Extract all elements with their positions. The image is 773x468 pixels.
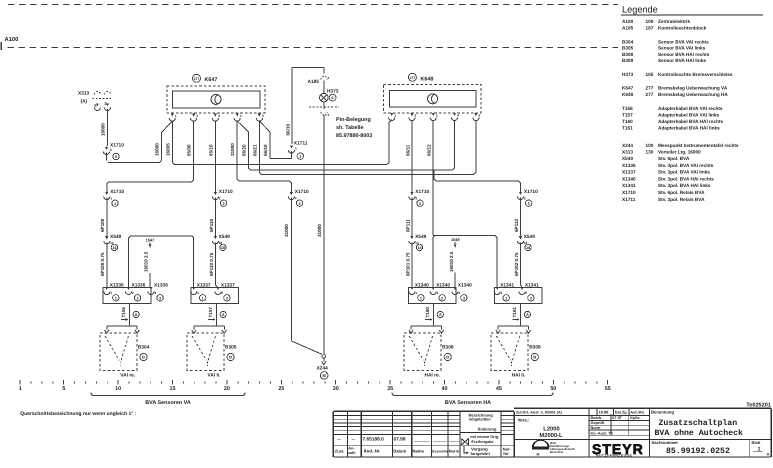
svg-text:3: 3	[218, 114, 220, 118]
svg-text:18: 18	[526, 246, 530, 250]
svg-text:Sensor BVA VAl rechts: Sensor BVA VAl rechts	[658, 39, 709, 44]
svg-text:66/10: 66/10	[263, 144, 268, 156]
svg-text:X1710: X1710	[524, 189, 538, 195]
svg-text:--: --	[338, 437, 342, 442]
svg-text:2: 2	[221, 291, 223, 295]
svg-text:5: 5	[479, 114, 481, 118]
svg-text:T160: T160	[425, 307, 430, 318]
svg-text:A185: A185	[308, 79, 320, 85]
svg-text:16010 2.5: 16010 2.5	[144, 251, 149, 272]
svg-text:5: 5	[524, 197, 526, 201]
svg-text:Stv. 3pol. BVA VAl links: Stv. 3pol. BVA VAl links	[658, 170, 710, 175]
svg-text:B305: B305	[225, 345, 237, 351]
svg-text:mitgeteilten: mitgeteilten	[469, 417, 491, 422]
svg-text:3: 3	[436, 114, 438, 118]
svg-text:1: 1	[394, 114, 396, 118]
svg-text:sh. Tabelle: sh. Tabelle	[336, 125, 363, 131]
svg-text:X313: X313	[78, 91, 90, 97]
svg-text:187: 187	[646, 25, 654, 30]
svg-text:277: 277	[646, 92, 654, 97]
svg-text:Auf./Ab.: Auf./Ab.	[630, 411, 645, 415]
svg-text:6P100 0.75: 6P100 0.75	[100, 252, 105, 276]
svg-text:K648: K648	[622, 92, 634, 97]
svg-text:1: 1	[114, 202, 116, 206]
svg-text:X549: X549	[219, 234, 231, 240]
svg-text:3: 3	[415, 197, 417, 201]
svg-text:5: 5	[62, 386, 65, 392]
svg-text:A: A	[767, 451, 770, 456]
svg-text:Stv. 6pol. BVA: Stv. 6pol. BVA	[658, 156, 690, 161]
svg-text:6P102 0.75: 6P102 0.75	[514, 252, 519, 276]
svg-text:K648: K648	[421, 77, 434, 83]
svg-text:BVA Sensoren VA: BVA Sensoren VA	[145, 400, 191, 406]
svg-text:7.65188.0: 7.65188.0	[363, 436, 385, 442]
svg-text:20: 20	[224, 386, 230, 392]
svg-text:16000: 16000	[101, 123, 106, 136]
svg-text:VAl li.: VAl li.	[208, 373, 221, 379]
svg-text:X1710: X1710	[110, 143, 124, 149]
svg-text:Te025201: Te025201	[746, 403, 771, 409]
svg-text:L2000: L2000	[543, 426, 559, 433]
svg-text:Verteiler Ltg. 16000: Verteiler Ltg. 16000	[658, 150, 701, 155]
svg-text:2: 2	[226, 296, 228, 300]
svg-text:Ko.-Ausl. TK: Ko.-Ausl. TK	[591, 431, 614, 435]
svg-text:X1336: X1336	[154, 283, 168, 289]
svg-text:T157: T157	[622, 113, 633, 118]
svg-text:277: 277	[410, 76, 416, 80]
svg-text:07.98: 07.98	[394, 436, 406, 442]
svg-text:Norm: Norm	[449, 449, 460, 454]
svg-text:mit neuem Orig.: mit neuem Orig.	[470, 435, 499, 439]
svg-text:2: 2	[223, 202, 225, 206]
svg-text:A100: A100	[5, 36, 19, 43]
svg-text:T160: T160	[622, 119, 633, 124]
svg-text:1: 1	[420, 296, 422, 300]
svg-text:X1710: X1710	[415, 189, 429, 195]
svg-text:31000: 31000	[230, 143, 235, 156]
svg-text:1: 1	[110, 291, 112, 295]
svg-text:Gezeichn: Gezeichn	[432, 450, 448, 454]
svg-text:35: 35	[387, 386, 393, 392]
svg-text:A: A	[135, 312, 138, 317]
svg-text:B: B	[229, 355, 232, 360]
svg-text:K647: K647	[622, 86, 634, 91]
svg-text:19.98: 19.98	[599, 410, 610, 415]
svg-text:3: 3	[463, 296, 465, 300]
svg-text:40: 40	[442, 386, 448, 392]
svg-text:55: 55	[605, 386, 611, 392]
svg-text:100: 100	[646, 19, 654, 24]
svg-text:277: 277	[194, 77, 200, 81]
svg-text:für: für	[503, 451, 509, 456]
svg-text:Bearb.: Bearb.	[591, 416, 603, 420]
svg-text:M: M	[537, 452, 540, 456]
svg-text:16010 2.5: 16010 2.5	[449, 251, 454, 272]
svg-text:6P110: 6P110	[209, 219, 214, 232]
svg-text:X244: X244	[622, 143, 633, 148]
svg-text:65/10: 65/10	[208, 144, 213, 156]
svg-text:T156: T156	[121, 307, 126, 318]
svg-text:Dat.Zg.: Dat.Zg.	[615, 411, 628, 415]
svg-text:277: 277	[646, 86, 654, 91]
svg-text:M2000-L: M2000-L	[539, 432, 563, 439]
svg-text:1: 1	[110, 197, 112, 201]
svg-text:Vers.:: Vers.:	[518, 418, 530, 423]
svg-text:VAl re.: VAl re.	[120, 373, 135, 379]
svg-text:18: 18	[221, 246, 225, 250]
svg-text:3: 3	[154, 291, 156, 295]
svg-text:B309: B309	[529, 345, 541, 351]
svg-text:2: 2	[196, 114, 198, 118]
svg-text:X1710: X1710	[295, 189, 309, 195]
svg-text:1: 1	[295, 147, 297, 151]
svg-text:6P101 0.75: 6P101 0.75	[405, 252, 410, 276]
svg-text:Norm: Norm	[591, 426, 602, 430]
svg-text:1: 1	[197, 291, 199, 295]
svg-text:BVA Sensoren HA: BVA Sensoren HA	[445, 400, 491, 406]
svg-text:5: 5	[262, 114, 264, 118]
svg-text:1: 1	[299, 155, 301, 159]
svg-text:25: 25	[278, 386, 284, 392]
svg-text:85.97890-8003: 85.97890-8003	[336, 133, 372, 139]
svg-text:A: A	[526, 312, 529, 317]
svg-text:Erstfreigabe: Erstfreigabe	[471, 440, 493, 444]
svg-text:X549: X549	[622, 156, 633, 161]
svg-text:Querschnittsbezeichnung nur we: Querschnittsbezeichnung nur wenn ungleic…	[20, 411, 136, 417]
svg-text:Änderung: Änderung	[478, 426, 497, 431]
svg-text:X1711: X1711	[622, 197, 636, 202]
svg-text:BVA ohne Autocheck: BVA ohne Autocheck	[655, 429, 744, 438]
svg-text:A: A	[439, 312, 442, 317]
svg-text:Blatt: Blatt	[752, 440, 762, 445]
svg-text:(A): (A)	[81, 99, 88, 105]
svg-text:2: 2	[136, 296, 138, 300]
svg-text:B304: B304	[622, 39, 634, 44]
svg-text:3: 3	[458, 291, 460, 295]
svg-text:Änd.-Nr.: Änd.-Nr.	[364, 449, 381, 454]
svg-text:Kontrolleuchte Bremsverschleis: Kontrolleuchte Bremsverschleiss	[658, 72, 733, 77]
svg-text:B309: B309	[622, 58, 634, 63]
svg-text:2: 2	[437, 291, 439, 295]
svg-text:HAl re.: HAl re.	[425, 373, 440, 379]
svg-text:10: 10	[115, 386, 121, 392]
svg-text:B308: B308	[622, 52, 634, 57]
svg-text:31000: 31000	[317, 224, 322, 237]
svg-text:2: 2	[530, 296, 532, 300]
svg-text:3: 3	[419, 202, 421, 206]
svg-text:B308: B308	[442, 345, 454, 351]
svg-text:Werk Graz: Werk Graz	[550, 450, 564, 454]
svg-text:H373: H373	[622, 72, 634, 77]
svg-text:B: B	[533, 355, 536, 360]
svg-text:6P111: 6P111	[405, 219, 410, 232]
svg-text:Sachnummer: Sachnummer	[652, 440, 679, 445]
svg-text:Stv. 3pol. BVA HAl rechts: Stv. 3pol. BVA HAl rechts	[658, 176, 714, 181]
svg-text:Zul.Grt.-Ausf. n. K9001 (A): Zul.Grt.-Ausf. n. K9001 (A)	[516, 411, 563, 415]
svg-text:16005: 16005	[165, 143, 170, 156]
svg-text:An-: An-	[348, 446, 355, 450]
svg-text:1: 1	[501, 291, 503, 295]
svg-text:T161: T161	[622, 126, 633, 131]
svg-text:1: 1	[19, 386, 22, 392]
svg-text:Kplle.: Kplle.	[630, 416, 640, 420]
svg-text:45: 45	[496, 386, 502, 392]
svg-text:Bremsbelag Ueberwachung HA: Bremsbelag Ueberwachung HA	[658, 92, 728, 97]
svg-text:66/12: 66/12	[427, 144, 432, 156]
svg-text:X1710: X1710	[219, 189, 233, 195]
svg-text:X1337: X1337	[622, 170, 636, 175]
svg-text:X549: X549	[524, 234, 536, 240]
svg-text:A: A	[222, 312, 225, 317]
svg-text:Benennung: Benennung	[651, 410, 674, 415]
svg-text:16000: 16000	[154, 143, 159, 156]
svg-text:T157: T157	[208, 307, 213, 318]
svg-text:X1340: X1340	[622, 176, 636, 181]
svg-text:Sensor BVA VAl links: Sensor BVA VAl links	[658, 46, 706, 51]
svg-text:4: 4	[240, 114, 242, 118]
svg-text:66/21: 66/21	[252, 144, 257, 156]
svg-text:Datum: Datum	[393, 449, 406, 454]
svg-text:B: B	[446, 355, 449, 360]
svg-text:X549: X549	[110, 234, 122, 240]
svg-text:X549: X549	[415, 234, 427, 240]
svg-text:100: 100	[646, 143, 654, 148]
svg-text:6: 6	[110, 148, 112, 152]
svg-text:X1710: X1710	[110, 189, 124, 195]
svg-text:H373: H373	[327, 89, 339, 95]
svg-text:Adapterkabel BVA HAl links: Adapterkabel BVA HAl links	[658, 126, 720, 131]
svg-text:6P100: 6P100	[100, 218, 105, 232]
svg-text:X1336: X1336	[622, 163, 636, 168]
svg-text:2: 2	[415, 114, 417, 118]
svg-text:50: 50	[550, 386, 556, 392]
svg-text:B304: B304	[138, 345, 150, 351]
svg-text:Sensor BVA HAl rechts: Sensor BVA HAl rechts	[658, 52, 710, 57]
svg-text:Zusatzschaltplan: Zusatzschaltplan	[659, 419, 738, 428]
svg-text:1: 1	[415, 291, 417, 295]
svg-text:--: --	[352, 437, 356, 442]
svg-text:1547: 1547	[146, 237, 155, 242]
svg-text:Pin-Belegung: Pin-Belegung	[336, 117, 371, 123]
svg-text:30: 30	[333, 386, 339, 392]
svg-text:zahl: zahl	[348, 451, 355, 455]
svg-text:1: 1	[115, 296, 117, 300]
svg-text:66/10: 66/10	[285, 124, 290, 136]
svg-text:X313: X313	[622, 150, 633, 155]
svg-text:Messpunkt Instrumententafel re: Messpunkt Instrumententafel rechts	[658, 143, 739, 148]
svg-text:X244: X244	[317, 365, 329, 371]
svg-text:Zust.: Zust.	[335, 449, 345, 454]
svg-text:2: 2	[328, 113, 330, 117]
svg-text:4: 4	[457, 114, 459, 118]
svg-text:3: 3	[159, 296, 161, 300]
svg-text:1: 1	[202, 296, 204, 300]
svg-text:130: 130	[646, 150, 654, 155]
svg-text:Sensor BVA HAl links: Sensor BVA HAl links	[658, 58, 706, 63]
svg-text:2: 2	[441, 296, 443, 300]
svg-text:2: 2	[132, 291, 134, 295]
svg-text:105: 105	[646, 72, 654, 77]
svg-text:Kontrolleuchtenblock: Kontrolleuchtenblock	[658, 25, 707, 30]
svg-text:A100: A100	[622, 19, 634, 24]
svg-text:66/20: 66/20	[241, 144, 246, 156]
svg-text:Zentralelektrik: Zentralelektrik	[658, 19, 690, 24]
svg-text:1549: 1549	[451, 237, 460, 242]
svg-text:NUTZFAHRZEUGE: NUTZFAHRZEUGE	[596, 454, 633, 458]
svg-text:Bremsbelag Ueberwachung VA: Bremsbelag Ueberwachung VA	[658, 86, 728, 91]
svg-text:A185: A185	[622, 25, 634, 30]
svg-text:B305: B305	[622, 46, 634, 51]
svg-text:Adapterkabel BVA HAl rechts: Adapterkabel BVA HAl rechts	[658, 119, 724, 124]
svg-text:Stv. 6pol. Relais BVA: Stv. 6pol. Relais BVA	[658, 190, 705, 195]
svg-text:6: 6	[115, 155, 117, 159]
svg-text:HAl li.: HAl li.	[512, 373, 526, 379]
svg-text:Adapterkabel BVA VAl rechts: Adapterkabel BVA VAl rechts	[658, 106, 723, 111]
svg-text:fortgeführt: fortgeführt	[471, 452, 491, 456]
svg-text:B: B	[142, 355, 145, 360]
svg-text:T161: T161	[512, 307, 517, 318]
svg-text:1: 1	[175, 114, 177, 118]
svg-text:65/90: 65/90	[187, 144, 192, 156]
svg-text:1: 1	[505, 296, 507, 300]
svg-text:6P112: 6P112	[514, 219, 519, 232]
svg-text:6P110 0.75: 6P110 0.75	[209, 252, 214, 276]
svg-text:K647: K647	[205, 77, 218, 83]
svg-text:Stv. 3pol. BVA HAl links: Stv. 3pol. BVA HAl links	[658, 183, 711, 188]
svg-text:Vorgang: Vorgang	[471, 446, 488, 451]
svg-text:Name: Name	[413, 449, 425, 454]
svg-text:X1341: X1341	[622, 183, 636, 188]
svg-text:Legende: Legende	[622, 4, 658, 14]
svg-text:15: 15	[170, 386, 176, 392]
svg-text:07.97: 07.97	[612, 416, 622, 420]
svg-text:85.99192.0252: 85.99192.0252	[666, 447, 730, 456]
svg-text:Stv. 3pol. Relais BVA: Stv. 3pol. Relais BVA	[658, 197, 705, 202]
svg-text:T156: T156	[622, 106, 633, 111]
svg-text:5: 5	[528, 202, 530, 206]
svg-text:Geprüft: Geprüft	[591, 421, 605, 425]
svg-text:2: 2	[525, 291, 527, 295]
svg-text:Stv. 3pol. BVA VAl rechts: Stv. 3pol. BVA VAl rechts	[658, 163, 714, 168]
svg-text:2: 2	[219, 197, 221, 201]
svg-text:66/11: 66/11	[405, 144, 410, 156]
svg-text:31000: 31000	[284, 224, 289, 237]
svg-text:X1710: X1710	[622, 190, 636, 195]
svg-text:X1340: X1340	[458, 283, 472, 289]
svg-text:4: 4	[295, 197, 297, 201]
svg-text:1: 1	[328, 76, 330, 80]
svg-text:Adapterkabel BVA VAl links: Adapterkabel BVA VAl links	[658, 113, 720, 118]
